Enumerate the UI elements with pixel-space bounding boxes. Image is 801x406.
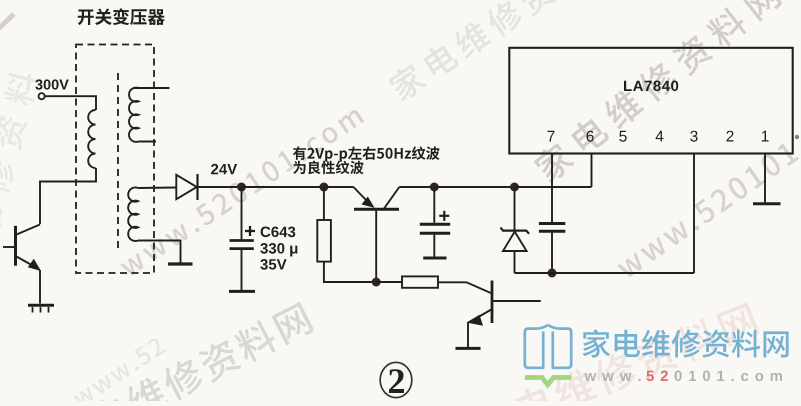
wire base node to R2 <box>376 281 402 283</box>
ground (Q3 emitter) <box>456 347 481 350</box>
wire pin 1 lead <box>764 154 766 203</box>
rectifier diode D1 <box>176 174 197 200</box>
wire to D2 <box>514 187 516 230</box>
wire rail to Q2 <box>324 186 354 188</box>
wire C2 node to zener node <box>434 186 514 188</box>
wire secondary to D1 <box>138 187 176 190</box>
capacitor C643 electrolytic <box>230 226 256 249</box>
capacitor C3 <box>539 224 565 232</box>
wire to R1 <box>323 187 325 220</box>
transistor Q1 (chopper) <box>3 225 41 272</box>
wire to C643 <box>241 187 243 240</box>
resistor R1 <box>317 220 331 262</box>
annotation 有2Vp-p左右50Hz纹波/为良性纹波 <box>293 146 440 174</box>
wire secondary to ground <box>138 241 181 263</box>
wire pin 7 to C3 <box>551 187 553 222</box>
pin 5 <box>619 131 626 142</box>
transformer secondary winding (top, unused) <box>129 88 169 142</box>
wire bottom rail (pin3 net) <box>515 154 695 274</box>
op-amp U1 LA7840 (vertical deflection IC) <box>509 48 792 154</box>
wire R2 to Q3 base <box>438 282 491 293</box>
figure number 2 <box>380 362 412 397</box>
wire R1 to base node <box>324 262 376 282</box>
ground (pin 1) <box>753 202 781 205</box>
node above C2 <box>430 183 439 192</box>
capacitor C2 electrolytic <box>420 211 450 233</box>
label C643 330u 35V <box>260 227 297 270</box>
node above zener <box>510 183 519 192</box>
transistor Q2 (ripple filter, PNP pass) <box>354 187 400 282</box>
wire pin7 link to pin6 <box>552 186 592 188</box>
resistor R2 <box>402 276 438 287</box>
ground (Q1 emitter) <box>28 305 54 312</box>
label 24V <box>211 164 237 175</box>
node 24V rail <box>237 183 246 192</box>
wire to C2 <box>433 187 435 223</box>
wire C643 to ground <box>241 250 243 291</box>
pin 4 <box>656 131 664 142</box>
transistor Q3 (protection) <box>467 281 541 326</box>
wire D1 to 24V node <box>198 186 242 188</box>
wire 24V rail <box>242 186 324 188</box>
pin 1 <box>762 131 769 142</box>
wire 300V to primary <box>45 96 96 110</box>
node 300V input terminal <box>35 79 69 99</box>
wire pin 7 lead <box>551 154 553 188</box>
wire C3 to bottom rail <box>551 233 553 273</box>
wire zener node to pin7 line <box>515 186 553 188</box>
transformer secondary winding (bottom) <box>128 187 138 241</box>
pin 6 <box>586 131 593 142</box>
pin 2 <box>726 131 733 142</box>
node bottom rail <box>548 269 557 278</box>
zener diode D2 <box>501 228 530 251</box>
wire primary to Q1 collector <box>40 168 96 224</box>
wire pin 6 lead <box>591 154 593 188</box>
wire Q2 to C2 node <box>399 186 434 188</box>
wire Q1 emitter to ground <box>39 270 41 304</box>
ground (C643) <box>229 290 255 293</box>
ground (C2) <box>423 257 446 260</box>
pin 3 <box>690 131 697 142</box>
transformer T1 label 开关变压器 <box>78 8 165 25</box>
ground (secondary winding) <box>168 262 193 265</box>
wire D2 to bottom rail <box>514 251 516 273</box>
node above R1 <box>319 183 328 192</box>
node Q2 base <box>372 278 381 287</box>
transformer T1 shield (dashed box) <box>76 45 154 274</box>
transformer primary winding <box>88 110 95 168</box>
wire C2 to ground <box>433 235 435 257</box>
transformer T1 core (dashed line) <box>117 73 119 252</box>
wire Q3 emitter to ground <box>467 322 469 347</box>
pin 7 <box>547 131 554 142</box>
